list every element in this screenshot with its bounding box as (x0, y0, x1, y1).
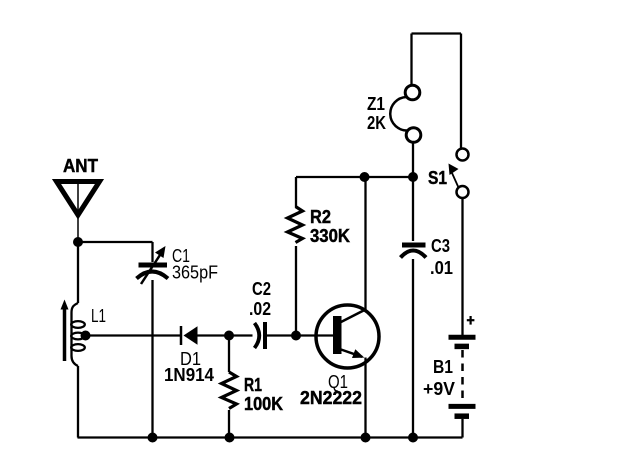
svg-text:2K: 2K (367, 113, 386, 133)
svg-text:1N914: 1N914 (164, 365, 214, 385)
svg-text:Z1: Z1 (367, 94, 385, 114)
svg-text:L1: L1 (91, 306, 106, 326)
svg-text:2N2222: 2N2222 (300, 388, 362, 408)
svg-text:S1: S1 (428, 168, 447, 188)
svg-text:R1: R1 (244, 375, 262, 395)
svg-text:330K: 330K (310, 226, 350, 246)
svg-text:.02: .02 (249, 299, 271, 319)
svg-text:+9V: +9V (423, 379, 455, 399)
svg-text:100K: 100K (244, 394, 283, 414)
svg-text:B1: B1 (433, 357, 453, 377)
svg-text:C3: C3 (431, 236, 450, 256)
svg-text:C2: C2 (252, 279, 271, 299)
svg-text:ANT: ANT (63, 156, 98, 176)
svg-text:365pF: 365pF (172, 263, 218, 283)
svg-text:.01: .01 (430, 258, 453, 278)
svg-text:R2: R2 (310, 207, 331, 227)
